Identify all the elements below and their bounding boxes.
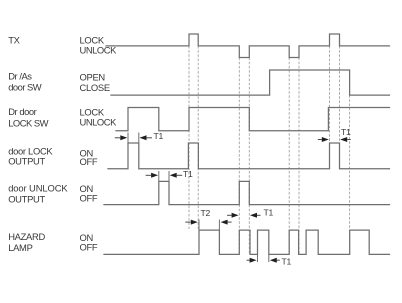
svg-text:OFF: OFF bbox=[80, 193, 98, 204]
svg-text:T1: T1 bbox=[341, 127, 351, 137]
svg-text:OPEN: OPEN bbox=[80, 71, 105, 82]
svg-text:OFF: OFF bbox=[80, 242, 98, 253]
svg-text:HAZARD: HAZARD bbox=[8, 231, 45, 242]
svg-text:door SW: door SW bbox=[8, 82, 42, 93]
HAZARD LAMP waveform bbox=[104, 230, 390, 254]
svg-text:CLOSE: CLOSE bbox=[80, 82, 110, 93]
dashed timing reference line pair, TX lock pulse 2 bbox=[329, 46, 331, 169]
svg-text:OUTPUT: OUTPUT bbox=[8, 193, 45, 204]
svg-text:UNLOCK: UNLOCK bbox=[80, 45, 118, 56]
svg-text:T1: T1 bbox=[183, 169, 193, 179]
T1 annotation arrows, TX unlock pulse width bbox=[227, 214, 232, 216]
svg-text:UNLOCK: UNLOCK bbox=[80, 117, 118, 128]
svg-text:T1: T1 bbox=[264, 208, 274, 218]
dashed timing reference line, door switch close bbox=[349, 95, 351, 229]
dashed timing reference line pair, TX unlock pulse 2 bbox=[288, 58, 290, 255]
door UNLOCK OUTPUT pulse1 edge extension ticks bbox=[158, 171, 160, 181]
svg-text:T1: T1 bbox=[154, 131, 164, 141]
T1 annotation arrows, door LOCK OUTPUT pulse1 bbox=[115, 137, 121, 139]
svg-text:door UNLOCK: door UNLOCK bbox=[8, 183, 68, 194]
svg-text:OFF: OFF bbox=[80, 156, 98, 167]
Dr door LOCK SW waveform bbox=[116, 108, 390, 131]
svg-text:T1: T1 bbox=[282, 256, 292, 266]
dashed timing reference line pair, TX lock pulse 1 bbox=[188, 46, 190, 229]
HAZARD T1-gap edge extension ticks bbox=[257, 254, 259, 262]
dashed timing reference line pair, TX unlock pulse 1 bbox=[238, 58, 240, 255]
svg-text:LAMP: LAMP bbox=[8, 242, 32, 253]
svg-text:LOCK SW: LOCK SW bbox=[8, 118, 48, 129]
Dr /As door SW waveform bbox=[111, 70, 390, 95]
TX waveform bbox=[106, 34, 390, 58]
svg-text:Dr door: Dr door bbox=[8, 106, 36, 117]
door LOCK OUTPUT pulse1 edge extension ticks bbox=[127, 133, 129, 144]
svg-text:Dr /As: Dr /As bbox=[8, 71, 32, 82]
door UNLOCK OUTPUT waveform bbox=[104, 181, 390, 204]
HAZARD pulse1 edge extension ticks bbox=[198, 220, 200, 231]
T1 annotation arrows, door UNLOCK OUTPUT pulse1 bbox=[146, 174, 152, 176]
T1 annotation arrows, hazard lamp off gap bbox=[247, 259, 250, 261]
T2 annotation arrows, hazard lamp pulse1 width bbox=[185, 221, 191, 223]
svg-text:TX: TX bbox=[8, 34, 20, 45]
T1 annotation arrows, door LOCK OUTPUT pulse3 bbox=[318, 139, 322, 141]
svg-text:T2: T2 bbox=[201, 208, 211, 218]
svg-text:OUTPUT: OUTPUT bbox=[8, 155, 45, 166]
door LOCK OUTPUT waveform bbox=[108, 143, 390, 169]
